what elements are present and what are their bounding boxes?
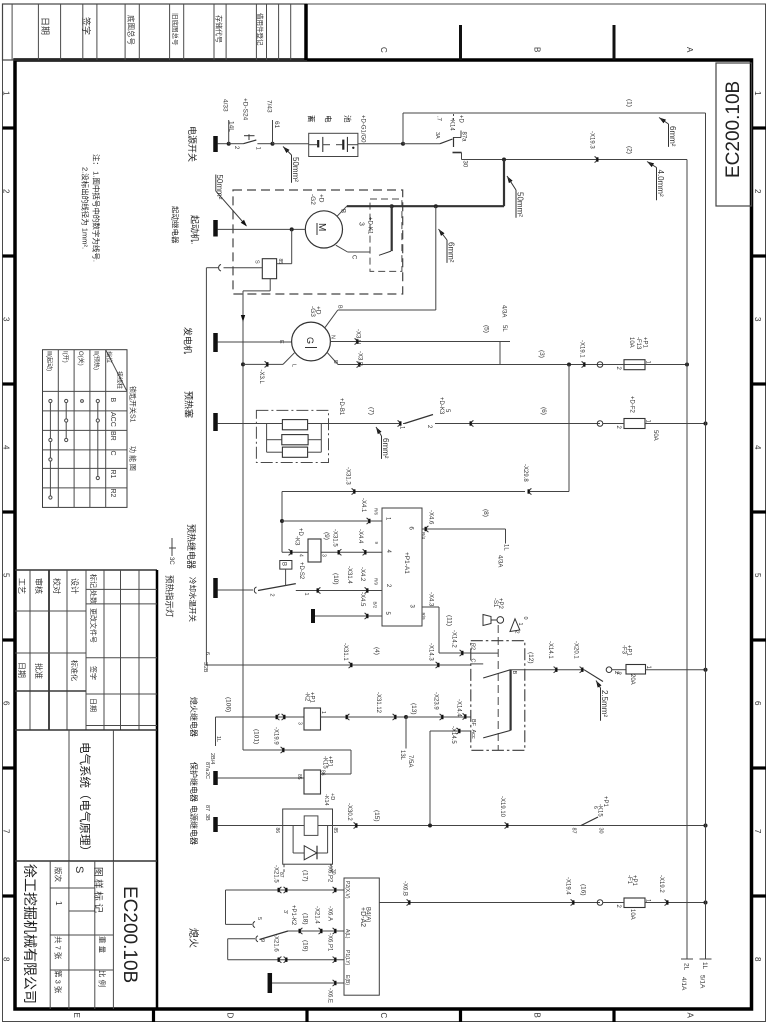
wire pin1: [282, 520, 382, 522]
connector -X19.3: [595, 157, 597, 163]
title block outer: [15, 569, 157, 571]
connector -X31.12: [347, 714, 349, 720]
svg-text:-X14.4: -X14.4: [456, 699, 462, 717]
blade lower: [483, 730, 510, 738]
gauge 6mm2 glow: [376, 427, 382, 434]
rail 17: [225, 890, 227, 924]
node generator L tap: [241, 362, 245, 366]
svg-text:电气系统（电气原理）: 电气系统（电气原理）: [78, 742, 92, 857]
svg-text:(4): (4): [373, 647, 380, 655]
title block lower horizontals: [50, 887, 95, 889]
contact marks col III: [49, 401, 51, 498]
svg-text:-X6.B: -X6.B: [402, 881, 408, 896]
K14 contact blade: [440, 139, 453, 144]
svg-text:87: 87: [204, 805, 210, 811]
svg-text:3A: 3A: [434, 132, 440, 139]
S2 actuator link: [285, 569, 287, 585]
svg-text:6: 6: [592, 806, 598, 809]
svg-text:-X14.5: -X14.5: [450, 726, 456, 744]
svg-text:-X6.E: -X6.E: [327, 988, 333, 1003]
svg-text:电源开关: 电源开关: [187, 126, 198, 162]
svg-text:起动继电器: 起动继电器: [171, 206, 181, 244]
connector -X23.9: [440, 714, 442, 720]
K14 relay box: [283, 809, 333, 864]
wire (3) row to F13: [338, 364, 687, 366]
fuse F2 50A: [624, 419, 645, 429]
svg-text:30: 30: [598, 828, 604, 834]
svg-text:徐工挖掘机械有限公司: 徐工挖掘机械有限公司: [22, 864, 38, 1004]
svg-text:C: C: [109, 451, 116, 456]
node 50mm2 tap: [502, 158, 506, 162]
svg-text:M: M: [316, 223, 327, 231]
K1 coil wire to connector and down: [224, 267, 263, 269]
svg-text:EC200.10B: EC200.10B: [119, 886, 140, 983]
bus 1 (2L): [686, 160, 688, 960]
svg-text:蓄: 蓄: [307, 115, 317, 123]
svg-text:3: 3: [2, 317, 11, 322]
gauge 6mm2 wire1: [659, 118, 666, 124]
wire (6) to F2: [435, 423, 600, 425]
solenoid contact blade: [379, 251, 391, 255]
gauge 50mm2: [283, 147, 290, 154]
svg-text:存储代号: 存储代号: [215, 15, 224, 43]
svg-text:(9): (9): [323, 532, 330, 540]
svg-text:BR: BR: [109, 431, 116, 441]
svg-text:-X19.1: -X19.1: [579, 340, 585, 358]
node B+ riser: [434, 204, 438, 208]
svg-text:A: A: [686, 1013, 695, 1019]
svg-text:版次: 版次: [54, 867, 64, 882]
title block horizontals upper-right: [86, 588, 157, 590]
motor C terminal: [336, 245, 348, 252]
svg-text:R/9: R/9: [374, 578, 379, 586]
svg-text:-X31.3: -X31.3: [345, 467, 351, 485]
svg-text:6: 6: [204, 652, 210, 655]
svg-text:10A: 10A: [628, 337, 634, 348]
svg-text:4/1A: 4/1A: [680, 977, 687, 991]
connector pair 106: [277, 714, 279, 720]
connector -X19.2: [665, 900, 667, 906]
svg-text:ACC: ACC: [109, 412, 116, 427]
bus 2 (1L): [705, 113, 707, 959]
svg-text:-X3.N: -X3.N: [355, 329, 361, 344]
svg-text:2: 2: [514, 631, 520, 634]
svg-text:2: 2: [2, 189, 11, 194]
svg-text:E: E: [278, 340, 284, 344]
svg-text:(6): (6): [540, 407, 547, 415]
connector -X31.1: [349, 662, 351, 668]
svg-text:5L: 5L: [501, 325, 507, 332]
svg-text:(12): (12): [527, 652, 534, 664]
svg-text:底图总号: 底图总号: [127, 15, 137, 45]
svg-text:-X31.1: -X31.1: [342, 643, 348, 661]
svg-text:电: 电: [324, 115, 334, 123]
connector -X29.8: [529, 489, 531, 495]
C stub: [471, 663, 483, 665]
svg-text:+D: +D: [318, 194, 325, 203]
glow wire east + K3 contact: [329, 423, 400, 425]
svg-text:B/2: B/2: [373, 602, 378, 609]
connector -X20.1: [580, 667, 582, 673]
svg-text:61: 61: [273, 121, 280, 129]
svg-text:7/5A: 7/5A: [407, 755, 413, 767]
node bus2 K15: [704, 824, 708, 828]
svg-text:+D-F2: +D-F2: [629, 396, 635, 414]
svg-text:2B/4: 2B/4: [209, 753, 215, 764]
connector circle F2: [597, 421, 603, 427]
svg-text:+D: +D: [458, 115, 464, 124]
svg-text:5: 5: [753, 573, 762, 578]
long wire K1-S down to (4): [205, 268, 207, 665]
svg-text:-X4.3: -X4.3: [428, 592, 434, 607]
svg-text:(5): (5): [483, 325, 490, 333]
relay coil K15: [304, 770, 321, 794]
N corner down: [499, 342, 501, 365]
svg-text:7/43: 7/43: [266, 100, 273, 113]
contact marks col II: [97, 401, 99, 478]
svg-text:-F1: -F1: [626, 875, 632, 885]
svg-text:(16): (16): [580, 884, 587, 896]
svg-text:C: C: [351, 255, 357, 260]
contact marks col O: [81, 400, 84, 403]
svg-text:(19): (19): [302, 940, 309, 952]
key link: [497, 625, 499, 750]
wire 13 east: [406, 716, 471, 718]
svg-text:C: C: [379, 47, 388, 53]
fuse F3 20A: [626, 665, 646, 675]
wire (106) left corner + refs: [215, 717, 217, 746]
switch blade F3: [584, 670, 603, 682]
svg-text:(17): (17): [302, 870, 309, 882]
svg-text:8: 8: [2, 957, 11, 962]
svg-text:-G3: -G3: [309, 306, 316, 317]
svg-text:C: C: [379, 1013, 388, 1019]
svg-text:P1(LY): P1(LY): [344, 950, 350, 966]
strip end bar: [304, 4, 308, 60]
svg-text:(8): (8): [482, 509, 489, 517]
K15 bar + coil wire: [213, 771, 218, 785]
svg-text:E: E: [72, 1013, 81, 1018]
svg-text:Ⅱ(预热): Ⅱ(预热): [93, 351, 101, 370]
title block horizontals upper-left: [15, 610, 86, 612]
title name cell: [68, 730, 70, 861]
svg-text:批准: 批准: [34, 663, 44, 679]
svg-text:6: 6: [2, 701, 11, 706]
svg-text:Ⅲ(起动): Ⅲ(起动): [46, 351, 54, 371]
switch blade S24: [243, 140, 256, 144]
svg-text:-F13: -F13: [635, 337, 641, 350]
node starter: [290, 227, 294, 231]
coolant temp bar row pin5: [311, 609, 315, 623]
svg-text:发电机: 发电机: [183, 327, 194, 354]
svg-text:85: 85: [332, 828, 338, 834]
svg-text:+D-K1: +D-K1: [367, 217, 373, 235]
gauge 50mm2 starter: [215, 175, 217, 192]
svg-text:旧底图总号: 旧底图总号: [171, 13, 180, 46]
wire (4): [206, 664, 470, 666]
svg-text:3/2B: 3/2B: [202, 662, 208, 673]
wire bar to S2: [218, 589, 254, 591]
cross-ref stub 4/33 14L: [228, 120, 230, 144]
connector -X14.5: [457, 728, 459, 734]
zone ticks left margin: [3, 126, 16, 129]
svg-text:+D-G1/G0: +D-G1/G0: [360, 115, 366, 143]
key switch circle: [497, 617, 504, 624]
blade upper: [483, 670, 510, 678]
svg-text:-X6.P2: -X6.P2: [327, 864, 333, 883]
connector: [300, 928, 302, 934]
svg-text:-K2: -K2: [304, 692, 310, 702]
node bus2 F2: [704, 422, 708, 426]
glow plug elements x3: [282, 420, 307, 430]
svg-text:B: B: [511, 671, 517, 675]
solenoid inner dashed box: [370, 199, 402, 271]
svg-text:-G2: -G2: [309, 194, 316, 205]
K3 contact blade: [405, 415, 434, 424]
svg-text:-X4.6: -X4.6: [428, 510, 434, 525]
svg-text:-K14: -K14: [323, 794, 329, 806]
wire pin5: [315, 615, 382, 617]
svg-text:+D-S2: +D-S2: [298, 562, 304, 580]
svg-text:-F3: -F3: [621, 645, 627, 655]
node wire3 branch: [567, 363, 571, 367]
header diagonal: [106, 350, 127, 392]
connector circle F1: [597, 900, 603, 906]
diode bar: [316, 846, 318, 860]
svg-text:1: 1: [753, 91, 762, 96]
connector -X31.4: [318, 588, 320, 594]
wire (12) row: [511, 669, 584, 671]
svg-text:(3): (3): [538, 350, 545, 358]
long wire K1 down to (101): [242, 291, 244, 750]
50mm2 heavy cable from K14 down to starter: [503, 160, 505, 207]
svg-text:20A: 20A: [629, 674, 635, 685]
svg-text:-X3.B: -X3.B: [357, 351, 363, 366]
svg-text:3': 3': [282, 910, 288, 914]
terminal bar power switch: [213, 136, 218, 152]
fuse F1 10A: [624, 898, 645, 908]
svg-text:4/3A: 4/3A: [501, 305, 507, 317]
svg-text:-K14: -K14: [449, 118, 455, 131]
wire (15): [333, 825, 603, 827]
connector -X6.P2: [333, 887, 335, 893]
svg-text:E(B): E(B): [344, 975, 350, 985]
svg-text:-X21.5: -X21.5: [273, 865, 279, 883]
svg-text:5: 5: [2, 573, 11, 578]
svg-text:C: C: [470, 659, 476, 663]
svg-text:预热指示灯: 预热指示灯: [165, 575, 175, 618]
title block lower verticals: [49, 861, 51, 1009]
svg-text:-X14.1: -X14.1: [547, 641, 553, 659]
svg-text:1L: 1L: [215, 736, 221, 742]
svg-text:日期: 日期: [17, 662, 26, 678]
wire 101: [243, 749, 351, 751]
svg-text:+D-K3: +D-K3: [438, 397, 444, 415]
wire: [273, 143, 309, 145]
zone ticks top margin: [459, 25, 462, 60]
key switch S1 function table: [43, 350, 128, 508]
svg-text:6mm²: 6mm²: [668, 126, 677, 147]
blade K2 aux: [260, 931, 289, 940]
svg-text:更改文件号: 更改文件号: [89, 608, 98, 643]
svg-text:87a: 87a: [461, 132, 467, 143]
node bus1 F13: [685, 363, 689, 367]
svg-text:锁匙开关S1: 锁匙开关S1: [129, 386, 138, 423]
connector -X6.A: [333, 928, 335, 934]
svg-text:8: 8: [753, 957, 762, 962]
wiper bar: [510, 670, 512, 731]
svg-text:R/4: R/4: [421, 532, 426, 540]
gauge 6mm2 riser: [439, 229, 445, 236]
wire (11) from pin3: [422, 606, 439, 608]
svg-text:50mm²: 50mm²: [291, 157, 300, 182]
svg-text:4: 4: [2, 445, 11, 450]
svg-text:(11): (11): [446, 615, 453, 626]
connector -X3.B: [357, 362, 359, 368]
node 13 branch: [404, 715, 408, 719]
svg-text:2.5mm²: 2.5mm²: [600, 690, 609, 717]
svg-text:1: 1: [303, 593, 309, 596]
drawing number box top-right: [716, 63, 752, 206]
rail 19: [227, 939, 229, 960]
cross-ref stub 7/43 61: [272, 120, 274, 144]
svg-text:池: 池: [343, 115, 353, 123]
svg-text:签字: 签字: [81, 17, 92, 35]
svg-text:校对: 校对: [52, 578, 62, 594]
K14 contact pin stubs dashed: [283, 864, 285, 872]
svg-text:2.没标出的线径为 1mm².: 2.没标出的线径为 1mm².: [81, 167, 91, 249]
wire (18) row A: [288, 930, 344, 932]
connector pair -X21.5: [279, 887, 281, 893]
solenoid B post: [391, 206, 393, 251]
svg-text:(2): (2): [626, 146, 633, 154]
svg-text:B: B: [337, 305, 343, 309]
connector circle F3: [606, 667, 612, 673]
terminal 30 bar: [453, 152, 462, 154]
svg-text:借用件登记: 借用件登记: [256, 13, 265, 46]
svg-text:-K15: -K15: [322, 756, 328, 769]
svg-text:50mm²: 50mm²: [516, 192, 525, 217]
svg-text:审核: 审核: [34, 578, 44, 594]
archival strip box: [3, 4, 307, 60]
controller box +D-A2: [344, 878, 379, 995]
svg-text:-X20.1: -X20.1: [573, 641, 579, 659]
svg-text:3: 3: [321, 554, 327, 557]
svg-text:+P1: +P1: [642, 337, 648, 349]
svg-text:3: 3: [753, 317, 762, 322]
wire (8) from pin6: [422, 528, 506, 530]
svg-text:-X23.9: -X23.9: [433, 692, 439, 710]
connector -X19.1: [582, 362, 584, 368]
svg-text:日期: 日期: [40, 17, 50, 35]
svg-text:预热继电器: 预热继电器: [186, 524, 197, 569]
svg-text:1: 1: [54, 901, 63, 906]
wire 13 west: [321, 716, 407, 718]
svg-text:N: N: [330, 335, 336, 339]
wire pin2: [296, 590, 382, 592]
connector -X19.4: [571, 900, 573, 906]
connector -X4.5: [365, 613, 367, 619]
glow left rail: [266, 424, 268, 453]
zone ticks bottom margin: [152, 1009, 155, 1022]
svg-text:10A: 10A: [629, 909, 635, 920]
svg-text:2L: 2L: [683, 963, 690, 971]
svg-text:(101): (101): [253, 729, 260, 744]
ground bar + E wire: [268, 973, 273, 993]
generator G3 circle: [292, 322, 331, 361]
svg-text:日期: 日期: [89, 698, 97, 712]
svg-text:85: 85: [277, 259, 283, 265]
svg-text:EC200.10B: EC200.10B: [723, 81, 744, 178]
glow plug dash-dot box: [256, 410, 328, 462]
svg-text:S: S: [73, 866, 85, 873]
K1 coil bottom wire down-left: [269, 279, 271, 291]
svg-text:+D-S24: +D-S24: [242, 98, 249, 121]
relay coil K1: [262, 259, 276, 279]
svg-text:B: B: [533, 1013, 542, 1018]
svg-text:-X4.5: -X4.5: [359, 592, 365, 607]
generator N terminal wire: [330, 341, 500, 343]
node: [271, 142, 275, 146]
svg-text:85: 85: [296, 774, 302, 780]
svg-text:4.0mm²: 4.0mm²: [656, 170, 665, 197]
svg-text:7: 7: [753, 829, 762, 834]
glow right rail: [320, 424, 322, 453]
switch blade S2: [258, 584, 296, 591]
wire (16) from A2 pin B: [379, 902, 600, 904]
svg-text:3: 3: [297, 722, 303, 725]
S2 button box: [280, 561, 292, 570]
connector wire6: [471, 421, 473, 427]
svg-text:6: 6: [753, 701, 762, 706]
svg-text:B: B: [109, 398, 116, 403]
key positions triangle: [510, 619, 520, 632]
svg-text:-X31.12: -X31.12: [375, 692, 381, 714]
svg-text:14L: 14L: [228, 121, 235, 132]
wire 106: [216, 716, 305, 718]
svg-text:O(关): O(关): [77, 351, 85, 366]
wire (2) to bus1 4.0mm2: [462, 159, 688, 161]
node solenoid B: [390, 204, 394, 208]
svg-text:注： 1.图中括号中的数字为线号.: 注： 1.图中括号中的数字为线号.: [92, 154, 102, 262]
svg-text:B: B: [280, 562, 286, 566]
6mm2 riser to generator B+: [435, 206, 437, 310]
relay coil K3: [308, 539, 321, 562]
gauge 4.0mm2: [647, 162, 654, 168]
node Acc: [428, 824, 432, 828]
svg-text:87: 87: [571, 828, 577, 834]
svg-text:B: B: [332, 360, 338, 364]
svg-text:第 3 张: 第 3 张: [54, 970, 64, 994]
svg-text:预热塞: 预热塞: [184, 391, 195, 418]
wire (1) to bus2 6mm2: [402, 113, 404, 144]
contact marks col I: [65, 401, 67, 440]
connector -X6.E: [333, 980, 335, 986]
svg-text:冷却水温开关: 冷却水温开关: [188, 577, 198, 622]
svg-text:0: 0: [522, 617, 528, 620]
wire X31.3 row: [282, 491, 525, 493]
gauge 2.5mm2: [596, 681, 602, 688]
svg-text:4/33: 4/33: [222, 99, 229, 112]
svg-text:+P1-A1: +P1-A1: [403, 552, 410, 574]
motor G2 circle: [305, 211, 342, 248]
svg-text:1: 1: [517, 623, 523, 626]
svg-text:-X3.L: -X3.L: [258, 370, 264, 385]
wire: [218, 143, 229, 145]
svg-text:B: B: [533, 47, 542, 52]
connector -X14.2: [460, 650, 462, 656]
wire pin4: [321, 551, 382, 553]
